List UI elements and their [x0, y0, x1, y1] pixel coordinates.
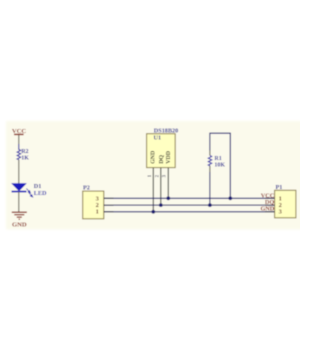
- wire R1 right vertical to VCC: [229, 133, 231, 199]
- wire DQ bus: [104, 204, 275, 206]
- svg-text:LED: LED: [34, 190, 47, 197]
- connector P2: [83, 185, 114, 219]
- svg-text:GND: GND: [12, 222, 27, 229]
- P2 pin 3 stub: [104, 197, 114, 199]
- connector P1: [265, 184, 296, 218]
- LED D1: [12, 183, 48, 197]
- junction R1 on VCC: [228, 196, 232, 200]
- svg-text:1K: 1K: [21, 156, 29, 162]
- wire GND bus: [104, 211, 275, 213]
- ground: [12, 212, 27, 219]
- R1 pullup loop top wire: [210, 132, 230, 134]
- wire R1 left upper: [209, 133, 211, 151]
- svg-text:1: 1: [96, 209, 99, 216]
- IC U1 DS18B20: [147, 128, 179, 212]
- pin 2: [160, 168, 162, 205]
- wire VCC bus: [104, 197, 275, 199]
- P1 pin 1 stub: [265, 197, 275, 199]
- wire VCC stem: [18, 135, 20, 144]
- resistor R1 lead bottom: [209, 166, 211, 172]
- resistor R2: [17, 149, 29, 162]
- wire R1 left lower to DQ: [209, 172, 211, 205]
- svg-text:D1: D1: [34, 183, 42, 190]
- wire D1 to ground: [18, 192, 20, 212]
- pin 3: [167, 168, 169, 199]
- junction R1 on DQ: [208, 203, 212, 207]
- P1 pin 3 stub: [265, 211, 275, 213]
- P1 pin 2 stub: [265, 204, 275, 206]
- svg-text:DQ: DQ: [159, 155, 165, 164]
- svg-text:10K: 10K: [214, 163, 225, 169]
- svg-text:GND: GND: [151, 151, 157, 164]
- P2 pin 1 stub: [104, 211, 114, 213]
- power symbol VCC: [12, 128, 27, 135]
- P2 pin 2 stub: [104, 204, 114, 206]
- resistor R1 lead top: [209, 151, 211, 156]
- svg-text:3: 3: [279, 208, 282, 215]
- wire to R2: [18, 144, 20, 150]
- junction U1 pin1 on GND: [151, 210, 155, 214]
- resistor R1: [208, 155, 225, 168]
- svg-text:VDD: VDD: [166, 151, 172, 164]
- LED emission arrows: [26, 189, 32, 198]
- svg-text:R1: R1: [214, 156, 221, 162]
- junction U1 pin3 on VCC: [166, 196, 170, 200]
- schematic sheet background: [6, 121, 302, 230]
- junction U1 pin2 on DQ: [159, 203, 163, 207]
- svg-text:R2: R2: [21, 149, 28, 155]
- svg-text:U1: U1: [154, 135, 162, 142]
- pin 1: [152, 168, 154, 212]
- svg-text:GND: GND: [260, 205, 274, 212]
- wire R2 to D1: [18, 160, 20, 184]
